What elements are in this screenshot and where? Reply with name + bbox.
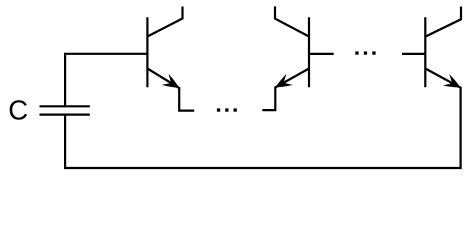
svg-text:C: C [8,94,28,125]
